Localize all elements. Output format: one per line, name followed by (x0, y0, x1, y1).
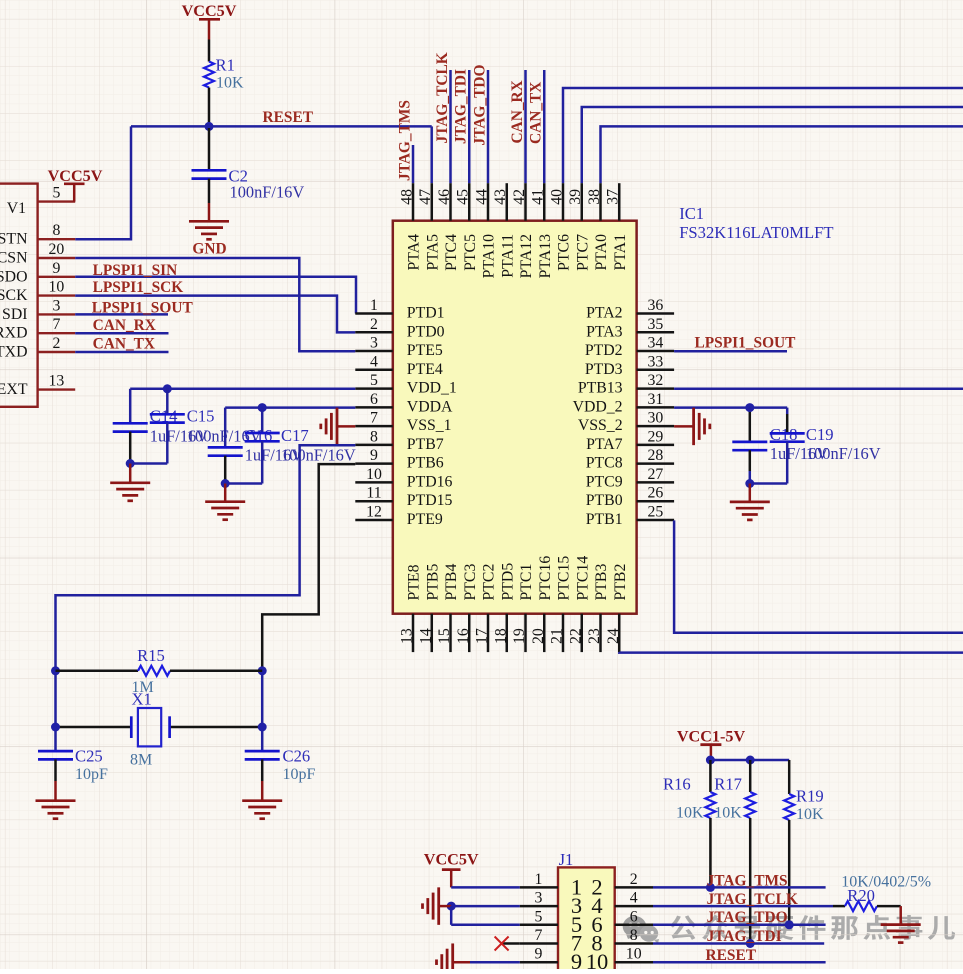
svg-text:PTD1: PTD1 (407, 305, 445, 322)
svg-text:GND: GND (192, 241, 226, 258)
svg-text:C15: C15 (187, 407, 215, 426)
svg-text:42: 42 (511, 189, 528, 205)
svg-text:RESET: RESET (706, 947, 757, 964)
svg-text:3: 3 (534, 890, 542, 907)
connector V1 body (0, 184, 38, 407)
svg-text:PTB5: PTB5 (424, 564, 441, 601)
IC1 designator (679, 204, 704, 223)
junction crystal left (51, 723, 60, 732)
svg-text:15: 15 (436, 628, 453, 644)
svg-text:PTD0: PTD0 (407, 323, 445, 340)
svg-text:14: 14 (417, 628, 434, 644)
IC1 pin 38 PTA0 (586, 183, 610, 270)
IC1 pin 20 PTC16 (530, 556, 554, 652)
wire J1 pin5 to ground (451, 906, 520, 925)
svg-text:PTC1: PTC1 (518, 564, 535, 601)
IC1 pin 43 PTA11 (492, 183, 516, 278)
connector J1 pin 2 (591, 871, 653, 900)
svg-text:RESET: RESET (263, 109, 314, 126)
wire VDD_1 (pin5) to C14/C15 (130, 388, 355, 391)
svg-text:22: 22 (567, 628, 584, 644)
svg-text:45: 45 (455, 189, 472, 205)
wire C16/C17 bottoms (225, 482, 262, 485)
svg-text:VCC5V: VCC5V (182, 2, 237, 20)
wire LPSPI1_SOUT stub (V1 pin3) (75, 313, 168, 316)
connector J1 pin 3 (520, 890, 582, 919)
wire CAN_TX stub (pin 41) (543, 70, 546, 183)
IC1 pin 7 VSS_1 (355, 410, 451, 435)
svg-text:JTAG_TDO: JTAG_TDO (472, 65, 489, 146)
net label CAN_RX (top) (509, 80, 526, 143)
ground VSS_2 earth symbol (674, 408, 710, 446)
IC1 pin 13 PTE8 (399, 564, 423, 652)
wire RESET (J1 pin10) (653, 961, 826, 964)
net label JTAG_TDO (bottom) (707, 909, 788, 926)
IC1 pin 46 PTC4 (436, 183, 460, 271)
svg-text:CSN: CSN (0, 250, 28, 267)
svg-text:RSTN: RSTN (0, 231, 28, 248)
wire LPSPI1_SOUT stub (pin34) (674, 350, 787, 353)
svg-text:R15: R15 (137, 646, 165, 665)
capacitor C14 (113, 389, 209, 464)
svg-text:10: 10 (586, 949, 609, 969)
net label LPSPI1_SOUT (92, 300, 194, 317)
wire PTB13 (pin32) to right edge (674, 388, 963, 391)
svg-text:PTA3: PTA3 (586, 323, 623, 340)
resistor R20 (833, 874, 931, 912)
net label CAN_RX (left) (93, 317, 156, 334)
svg-text:LPSPI1_SIN: LPSPI1_SIN (93, 262, 178, 279)
svg-text:PTA13: PTA13 (537, 234, 554, 278)
net label CAN_TX (top) (528, 82, 545, 144)
wire VDDA (pin6) to C16/C17 (225, 406, 355, 409)
svg-text:SDO: SDO (0, 268, 28, 285)
svg-text:CAN_TX: CAN_TX (528, 82, 545, 144)
svg-text:CAN_RX: CAN_RX (93, 317, 156, 334)
crystal X1 (56, 690, 263, 769)
net label JTAG_TCLK (434, 52, 451, 143)
svg-text:3: 3 (370, 335, 378, 352)
IC1 pin 45 PTC5 (455, 183, 479, 271)
net label JTAG_TCLK (bottom) (707, 891, 798, 908)
svg-text:V1: V1 (7, 200, 26, 217)
IC1 pin 2 PTD0 (355, 316, 444, 341)
svg-text:4: 4 (370, 353, 378, 370)
capacitor C25 (38, 747, 108, 784)
svg-text:13: 13 (399, 628, 416, 644)
ground (C18/C19) (730, 484, 770, 520)
net label LPSPI1_SIN (93, 262, 178, 279)
resistor R1 (204, 40, 244, 127)
resistor R15 (56, 646, 263, 696)
wire VDD_2 (pin31) to C18/C19 (674, 406, 787, 409)
no-connect X (J1 pin7) (495, 937, 509, 951)
ground VSS_1 earth symbol (321, 408, 356, 446)
IC1 pin 14 PTB5 (417, 564, 441, 653)
wire CAN_RX stub (V1 pin7) (75, 332, 168, 335)
net label JTAG_TMS (397, 100, 414, 181)
svg-text:PTC14: PTC14 (574, 556, 591, 601)
svg-text:10K: 10K (676, 805, 704, 822)
svg-text:20: 20 (530, 628, 547, 644)
IC1 pin 23 PTB3 (586, 564, 610, 653)
junction C18 top (745, 403, 754, 412)
svg-text:PTA12: PTA12 (518, 234, 535, 278)
svg-text:PTC15: PTC15 (556, 556, 573, 601)
svg-text:PTE5: PTE5 (407, 342, 443, 359)
svg-text:VDD_1: VDD_1 (407, 380, 457, 397)
IC1 pin 3 PTE5 (355, 335, 443, 360)
svg-text:JTAG_TMS: JTAG_TMS (707, 873, 788, 890)
svg-text:R1: R1 (216, 56, 235, 75)
svg-text:100nF/16V: 100nF/16V (806, 444, 881, 463)
IC1 pin 33 PTD3 (585, 353, 674, 378)
wire J1 pin7 stub (502, 942, 520, 945)
svg-text:IC1: IC1 (679, 204, 704, 223)
wire JTAG_TDO (J1 pin6) (653, 924, 826, 927)
IC1 pin 8 PTB7 (355, 428, 443, 453)
connector V1 pin 2 TXD (0, 335, 75, 361)
svg-text:10K: 10K (796, 806, 824, 823)
junction R15 right (258, 666, 267, 675)
svg-text:VDDA: VDDA (407, 398, 453, 415)
svg-text:PTC4: PTC4 (443, 234, 460, 271)
capacitor C19 (770, 408, 881, 484)
ground (C16/C17) (205, 484, 245, 520)
svg-text:VCC5V: VCC5V (424, 851, 479, 869)
svg-text:PTB4: PTB4 (443, 564, 460, 601)
svg-text:21: 21 (549, 628, 566, 644)
IC1 pin 6 VDDA (355, 391, 453, 416)
svg-text:17: 17 (474, 628, 491, 644)
wire JTAG_TDI (J1 pin8) (653, 942, 824, 945)
connector J1 pin 8 (591, 927, 653, 956)
svg-text:6: 6 (630, 908, 638, 925)
svg-text:2: 2 (630, 871, 638, 888)
svg-text:20: 20 (49, 241, 65, 258)
svg-text:R17: R17 (714, 775, 742, 794)
net label JTAG_TDO (472, 65, 489, 146)
svg-text:3: 3 (52, 297, 60, 314)
svg-text:C17: C17 (281, 426, 309, 445)
svg-text:PTA10: PTA10 (481, 234, 498, 278)
wire JTAG_TCLK stub (pin 46) (449, 70, 452, 183)
svg-text:C19: C19 (806, 425, 834, 444)
IC1 pin 9 PTB6 (355, 447, 443, 472)
ground earth (J1 pin9) (437, 943, 471, 974)
wire PTB6 (pin9) to crystal (262, 464, 355, 671)
svg-text:PTD16: PTD16 (407, 473, 453, 490)
svg-text:16: 16 (455, 628, 472, 644)
IC1 pin 24 PTB2 (605, 564, 629, 653)
svg-text:C25: C25 (75, 747, 103, 766)
connector J1 pin 7 (520, 927, 582, 956)
svg-text:38: 38 (586, 189, 603, 205)
svg-text:29: 29 (648, 428, 664, 445)
svg-text:33: 33 (648, 353, 664, 370)
wire JTAG_TMS stub (pin 48) (412, 145, 415, 183)
svg-text:34: 34 (648, 335, 664, 352)
svg-text:5: 5 (52, 185, 60, 202)
connector J1 pin 1 (520, 871, 582, 900)
IC1 pin 47 PTA5 (417, 183, 441, 270)
IC1 pin 28 PTC8 (586, 447, 674, 472)
svg-text:PTC8: PTC8 (586, 455, 623, 472)
svg-text:LPSPI1_SCK: LPSPI1_SCK (93, 279, 184, 296)
wire C14/C15 bottoms (130, 462, 167, 465)
wire V1 pin20 to IC pin3 PTE5 (75, 258, 355, 351)
connector V1 pin 10 SCK (0, 279, 75, 305)
resistor R17 (714, 760, 755, 943)
svg-text:PTA2: PTA2 (586, 305, 623, 322)
svg-text:32: 32 (648, 372, 664, 389)
junction C15 top (163, 384, 172, 393)
svg-text:R16: R16 (663, 775, 691, 794)
IC1 pin 22 PTC14 (567, 556, 591, 652)
svg-text:LPSPI1_SOUT: LPSPI1_SOUT (695, 335, 797, 352)
IC1 pin 41 PTA13 (530, 183, 554, 278)
svg-text:PTA1: PTA1 (612, 234, 629, 270)
IC1 pin 1 PTD1 (355, 297, 444, 322)
net label JTAG_TDI (bottom) (707, 928, 782, 945)
net label LPSPI1_SCK (93, 279, 184, 296)
svg-text:PTC2: PTC2 (481, 564, 498, 601)
IC1 pin 4 PTE4 (355, 353, 443, 378)
power VCC5V (V1 pin 5) (48, 167, 103, 202)
wire LPSPI1_SIN to IC pin1 (75, 277, 356, 314)
svg-text:100nF/16V: 100nF/16V (230, 183, 305, 202)
svg-text:PTD3: PTD3 (585, 361, 623, 378)
svg-text:4: 4 (630, 890, 638, 907)
svg-text:PTC6: PTC6 (556, 234, 573, 271)
svg-text:9: 9 (52, 260, 60, 277)
svg-text:46: 46 (436, 189, 453, 205)
resistor R16 (663, 760, 715, 887)
IC1 pin 40 PTC6 (549, 183, 573, 271)
IC1 pin 32 PTB13 (578, 372, 674, 397)
connector J1 body (558, 850, 615, 974)
IC1 part number (679, 223, 833, 242)
svg-text:PTA0: PTA0 (593, 234, 610, 271)
wire JTAG_TDI stub (pin 45) (468, 70, 471, 183)
svg-text:30: 30 (648, 410, 664, 427)
svg-text:PTC3: PTC3 (462, 564, 479, 601)
svg-text:C26: C26 (283, 747, 311, 766)
svg-text:PTB1: PTB1 (586, 511, 623, 528)
svg-text:EXT: EXT (0, 381, 28, 398)
ground earth (J1 pin3) (423, 887, 452, 925)
IC1 pin 26 PTB0 (586, 485, 674, 510)
svg-text:PTB6: PTB6 (407, 455, 444, 472)
svg-text:PTA7: PTA7 (586, 436, 623, 453)
capacitor C15 (150, 389, 262, 464)
power VCC5V (J1 pin1) (424, 851, 479, 888)
wire PTB7 (pin8) to crystal (56, 445, 356, 751)
svg-text:JTAG_TCLK: JTAG_TCLK (707, 891, 798, 908)
junction crystal right (258, 723, 267, 732)
svg-text:6: 6 (370, 391, 378, 408)
IC1 pin 37 PTA1 (605, 183, 629, 270)
svg-text:PTB7: PTB7 (407, 436, 444, 453)
svg-text:PTB2: PTB2 (612, 564, 629, 601)
IC1 pin 19 PTC1 (511, 564, 535, 652)
wire J1 pin3 to ground (451, 905, 520, 908)
svg-text:PTC9: PTC9 (586, 473, 623, 490)
svg-text:PTA4: PTA4 (406, 234, 423, 271)
IC1 pin 17 PTC2 (474, 564, 498, 653)
IC1 pin 30 VSS_2 (578, 410, 674, 435)
IC IC1 FS32K116LAT0MLFT body (393, 221, 637, 614)
IC1 pin 5 VDD_1 (355, 372, 457, 397)
IC1 pin 34 PTD2 (585, 335, 674, 360)
svg-text:PTC5: PTC5 (462, 234, 479, 271)
svg-text:47: 47 (417, 189, 434, 205)
IC1 pin 15 PTB4 (436, 564, 460, 653)
connector V1 pin 5 (38, 185, 76, 202)
svg-text:10K: 10K (714, 805, 742, 822)
IC1 pin 12 PTE9 (355, 503, 443, 528)
junction R16/TMS (706, 883, 715, 892)
svg-text:26: 26 (648, 485, 664, 502)
connector J1 pin 5 (520, 908, 582, 937)
svg-text:PTD2: PTD2 (585, 342, 623, 359)
svg-text:PTC7: PTC7 (574, 234, 591, 271)
svg-text:100nF/16V: 100nF/16V (281, 446, 356, 465)
svg-text:JTAG_TCLK: JTAG_TCLK (434, 52, 451, 143)
svg-text:R19: R19 (796, 787, 824, 806)
svg-text:VCC1-5V: VCC1-5V (677, 728, 746, 746)
svg-text:PTA11: PTA11 (499, 234, 516, 278)
junction R17 top (746, 756, 755, 765)
wire JTAG_TCLK (J1 pin4) (653, 905, 833, 908)
svg-text:10pF: 10pF (283, 766, 316, 783)
junction C17 top (258, 403, 267, 412)
capacitor C26 (245, 747, 316, 784)
svg-text:7: 7 (370, 410, 378, 427)
wire J1 pin1 to VCC5V (451, 886, 520, 889)
wire PTB2 (pin24) to right edge (619, 651, 963, 654)
svg-text:48: 48 (399, 189, 416, 205)
svg-text:11: 11 (366, 485, 381, 502)
svg-text:18: 18 (492, 628, 509, 644)
ground (C14/C15) (110, 464, 150, 501)
svg-text:VSS_2: VSS_2 (578, 417, 623, 434)
svg-text:PTD5: PTD5 (499, 563, 516, 601)
connector J1 pin 6 (591, 908, 653, 937)
wire RESET (131, 126, 432, 183)
svg-text:SDI: SDI (2, 306, 27, 323)
connector J1 pin 9 (520, 946, 582, 974)
svg-text:PTA5: PTA5 (424, 234, 441, 271)
junction R1/RESET/C2 (205, 122, 214, 131)
IC1 pin 16 PTC3 (455, 564, 479, 653)
svg-text:X1: X1 (132, 690, 152, 709)
ground (R20) (881, 906, 921, 943)
svg-text:2: 2 (52, 335, 60, 352)
svg-text:RXD: RXD (0, 325, 28, 342)
resistor R19 (784, 760, 824, 925)
svg-text:8M: 8M (130, 752, 152, 769)
svg-text:PTE9: PTE9 (407, 511, 443, 528)
net label RESET (263, 109, 314, 126)
IC1 pin 21 PTC15 (549, 556, 573, 652)
net label CAN_TX (left) (93, 336, 155, 353)
svg-text:LPSPI1_SOUT: LPSPI1_SOUT (92, 300, 194, 317)
svg-text:TXD: TXD (0, 344, 28, 361)
svg-text:7: 7 (52, 316, 60, 333)
svg-text:1: 1 (370, 297, 378, 314)
net label JTAG_TDI (453, 69, 470, 144)
capacitor C2 (192, 128, 305, 203)
IC1 pin 29 PTA7 (586, 428, 674, 453)
svg-text:7: 7 (534, 927, 542, 944)
power VCC5V (R1 pull-up) (182, 2, 237, 40)
wire J1 pin9 (470, 961, 520, 964)
svg-text:5: 5 (534, 908, 542, 925)
svg-text:VCC5V: VCC5V (48, 167, 103, 185)
wire PTB1 (pin25) to right edge (674, 520, 963, 632)
ground (C25) (36, 781, 76, 819)
svg-text:PTC16: PTC16 (537, 556, 554, 601)
svg-text:FS32K116LAT0MLFT: FS32K116LAT0MLFT (679, 223, 833, 242)
svg-text:19: 19 (511, 628, 528, 644)
svg-text:8: 8 (52, 222, 60, 239)
svg-text:40: 40 (549, 189, 566, 205)
wire pin 40 to right edge (563, 88, 963, 183)
wire CAN_RX stub (pin 42) (524, 70, 527, 183)
junction R19/TDO (785, 920, 794, 929)
wire pin 39 to right edge (582, 107, 963, 183)
junction R16 top (706, 756, 715, 765)
IC1 pin 27 PTC9 (586, 466, 674, 491)
svg-text:PTE8: PTE8 (406, 564, 423, 600)
net label JTAG_TMS (bottom) (707, 873, 788, 890)
svg-text:9: 9 (534, 946, 542, 963)
svg-text:J1: J1 (559, 850, 574, 869)
wire JTAG_TDO stub (pin 44) (487, 70, 490, 183)
IC1 pin 10 PTD16 (355, 466, 452, 491)
svg-text:8: 8 (630, 927, 638, 944)
svg-text:13: 13 (49, 373, 65, 390)
svg-text:PTB0: PTB0 (586, 492, 623, 509)
svg-text:24: 24 (605, 628, 622, 644)
wire pin 38 to right edge (601, 126, 963, 183)
IC1 pin 25 PTB1 (586, 503, 674, 528)
svg-text:2: 2 (370, 316, 378, 333)
wire C18/C19 bottoms (750, 482, 787, 485)
svg-text:VSS_1: VSS_1 (407, 417, 452, 434)
connector V1 pin 8 RSTN (0, 222, 75, 248)
capacitor C18 (732, 408, 828, 484)
wire V1 pin8 to RESET (75, 126, 131, 239)
svg-text:10: 10 (366, 466, 382, 483)
ground GND (C2) (189, 203, 229, 258)
wire JTAG_TMS (J1 pin2) (653, 886, 826, 889)
connector V1 pin 3 SDI (2, 297, 75, 323)
connector V1 pin 13 EXT (0, 373, 75, 399)
connector J1 pin 10 (586, 946, 653, 974)
svg-text:28: 28 (648, 447, 664, 464)
junction C18 bottom (745, 479, 754, 488)
svg-text:8: 8 (370, 428, 378, 445)
junction C14 bottom (126, 459, 135, 468)
IC1 pin 18 PTD5 (492, 563, 516, 652)
IC1 pin 39 PTC7 (567, 183, 591, 271)
junction C16 bottom (221, 479, 230, 488)
connector J1 pin 4 (591, 890, 653, 919)
svg-text:PTE4: PTE4 (407, 361, 443, 378)
IC1 pin 48 PTA4 (399, 183, 423, 270)
